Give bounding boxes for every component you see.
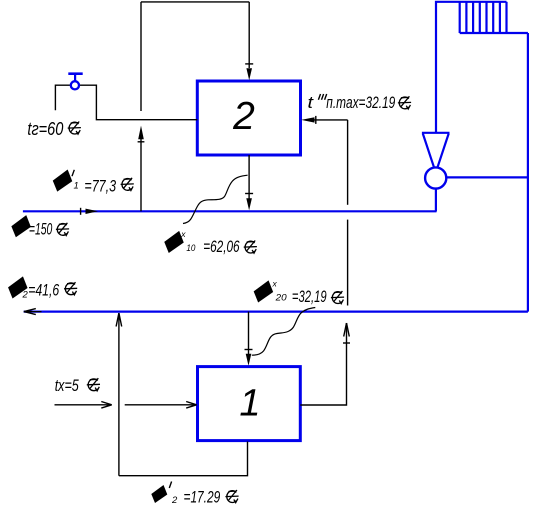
svg-text:10: 10 (186, 243, 196, 254)
svg-text:2: 2 (171, 495, 178, 506)
svg-text:1: 1 (74, 181, 79, 192)
svg-text:п.mах=32.19: п.mах=32.19 (326, 93, 395, 112)
svg-text:tx=5: tx=5 (55, 376, 80, 395)
svg-text:=77,3: =77,3 (84, 177, 116, 196)
svg-text:=62,06: =62,06 (203, 237, 240, 256)
svg-text:x: x (272, 279, 278, 289)
svg-text:tг=60: tг=60 (27, 119, 63, 139)
svg-text:t: t (308, 93, 315, 112)
svg-text:20: 20 (275, 293, 288, 304)
svg-text:=150: =150 (29, 220, 53, 239)
svg-text:2: 2 (232, 95, 255, 138)
svg-text:=17.29: =17.29 (184, 488, 221, 507)
svg-text:1: 1 (239, 383, 260, 425)
svg-text:=41,6: =41,6 (28, 281, 59, 300)
svg-text:=32,19: =32,19 (292, 287, 327, 306)
